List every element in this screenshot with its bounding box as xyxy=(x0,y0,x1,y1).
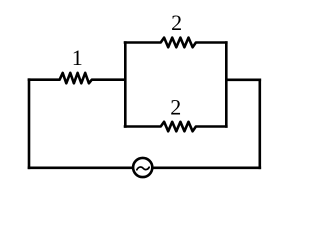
svg-text:1: 1 xyxy=(72,45,83,70)
wire: left main horizontal (node A to parallel box) xyxy=(29,38,260,168)
wire: left vertical xyxy=(28,80,31,168)
AC source sine tilde xyxy=(137,167,149,170)
svg-text:2: 2 xyxy=(171,10,182,35)
resistor R1 value 1 (zigzag with leads) xyxy=(29,73,125,83)
wire: parallel box right vertical xyxy=(225,43,228,127)
wire: right vertical xyxy=(258,80,261,168)
wire: right stub (box to right vertical) xyxy=(226,79,259,82)
resistor R3 value 2 (bottom branch zigzag with leads) xyxy=(125,122,226,132)
wire: bottom horizontal xyxy=(29,167,260,170)
AC source V1 circle xyxy=(133,158,152,177)
resistor R2 value 2 (top branch zigzag with leads) xyxy=(125,38,226,48)
svg-text:2: 2 xyxy=(170,94,181,119)
wire: parallel box left vertical xyxy=(124,43,127,127)
